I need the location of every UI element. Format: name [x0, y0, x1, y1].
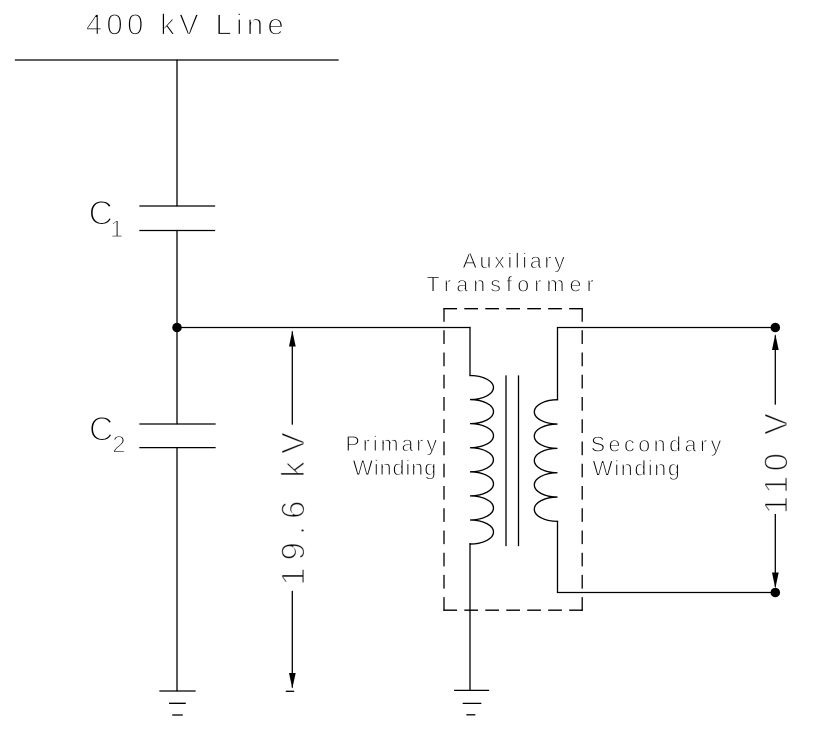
node: secondary output top — [771, 323, 781, 333]
svg-text:Transformer: Transformer — [427, 273, 599, 297]
dimension arrow 110 V — [772, 334, 779, 589]
capacitor C2 — [140, 424, 215, 448]
wire: 400 kV bus — [16, 59, 339, 61]
svg-text:1: 1 — [110, 216, 123, 243]
ground (divider) — [160, 691, 195, 715]
label: Secondary Winding — [591, 432, 725, 480]
node: secondary output bottom — [771, 588, 781, 598]
wire: node to primary — [177, 327, 470, 329]
label: Auxiliary Transformer — [427, 249, 599, 297]
svg-text:Secondary: Secondary — [591, 432, 725, 456]
ground (transformer) — [455, 690, 489, 714]
svg-text:Winding: Winding — [353, 456, 438, 480]
transformer core — [506, 376, 519, 546]
dimension arrow 19.6 kV — [286, 331, 295, 692]
label: 400 kV Line — [86, 9, 288, 42]
svg-text:400 kV Line: 400 kV Line — [86, 9, 288, 42]
svg-text:2: 2 — [112, 431, 125, 458]
wire: secondary bottom lead — [558, 521, 776, 592]
svg-text:Auxiliary: Auxiliary — [463, 249, 568, 273]
wire: C2 to ground — [176, 448, 178, 691]
svg-text:110 V: 110 V — [757, 409, 794, 515]
wire: primary top lead — [469, 328, 471, 376]
label: 110 V (rotated) — [757, 409, 794, 515]
inductor: secondary winding of T1 — [534, 400, 557, 522]
svg-text:C: C — [89, 410, 114, 448]
wire: bus to C1 — [176, 60, 178, 206]
label: Primary Winding — [346, 432, 441, 480]
wire: primary bottom lead to ground — [469, 544, 471, 691]
inductor: primary winding of T1 — [470, 376, 494, 545]
svg-text:19.6 kV: 19.6 kV — [274, 425, 311, 586]
capacitor C1 — [140, 206, 215, 231]
wire: secondary top lead — [558, 328, 776, 400]
node A (divider tap) — [172, 323, 182, 333]
label C1 — [89, 195, 124, 243]
label C2 — [89, 410, 126, 458]
svg-text:Winding: Winding — [593, 456, 682, 480]
wire: C1 to C2 — [176, 231, 178, 425]
auxiliary transformer dashed enclosure — [444, 309, 582, 611]
svg-text:Primary: Primary — [346, 432, 441, 456]
label: 19.6 kV (rotated) — [274, 425, 311, 586]
